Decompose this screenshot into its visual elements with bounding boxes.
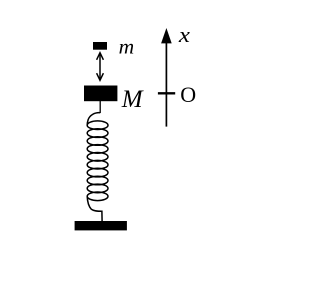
- x axis line: [165, 40, 167, 127]
- mass M block: [84, 86, 117, 102]
- svg-text:m: m: [119, 34, 135, 58]
- svg-text:O: O: [180, 82, 196, 107]
- origin tick: [158, 92, 175, 94]
- x axis arrowhead: [161, 28, 172, 43]
- mass m block: [93, 42, 107, 50]
- svg-text:x: x: [178, 22, 190, 47]
- rod from M to spring: [99, 101, 101, 113]
- base block: [75, 221, 127, 230]
- spring coil: [87, 113, 108, 222]
- double arrow between m and M: [97, 53, 104, 81]
- svg-text:M: M: [121, 86, 144, 113]
